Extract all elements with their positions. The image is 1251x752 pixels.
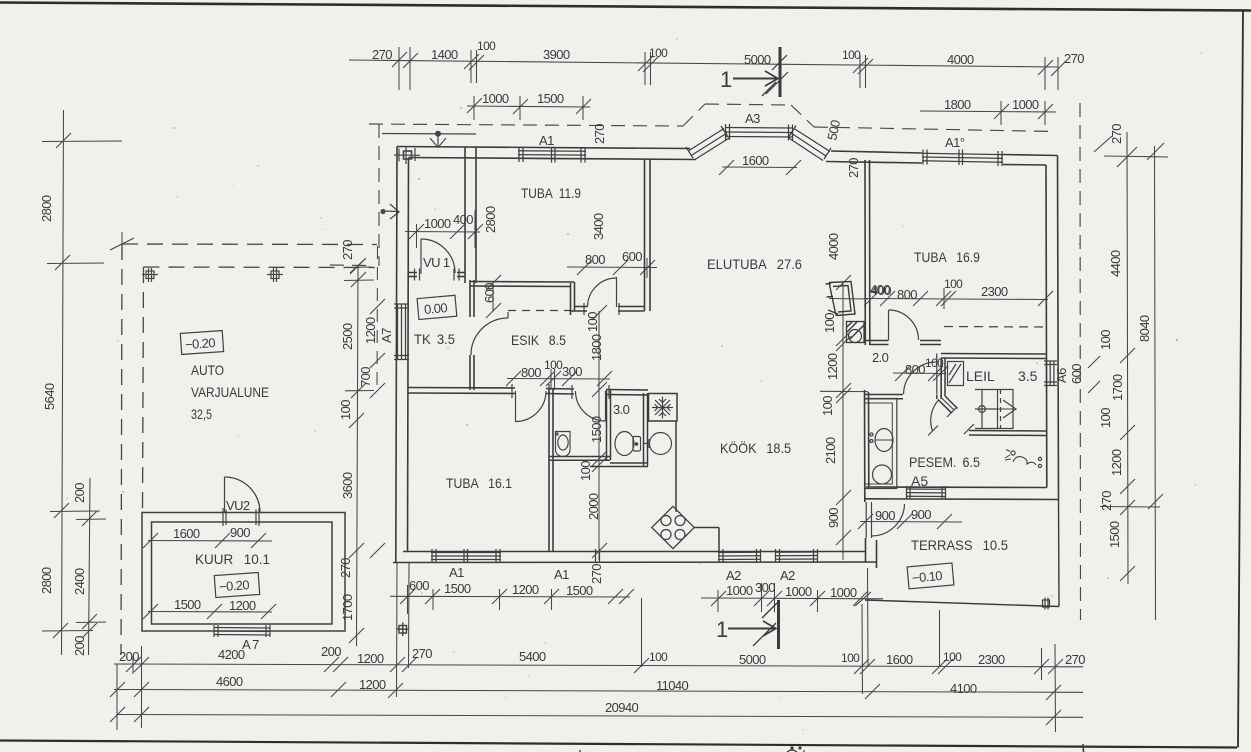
svg-text:TK 3.5: TK 3.5 xyxy=(414,331,455,347)
overhang top left xyxy=(369,124,683,126)
wall piece between doors xyxy=(546,388,574,391)
elevation box 0.00 xyxy=(417,295,457,319)
section line top xyxy=(779,47,782,97)
svg-text:270: 270 xyxy=(412,646,432,661)
svg-text:800: 800 xyxy=(521,365,541,380)
dim line 800/600 tuba119 xyxy=(567,266,657,269)
svg-text:1600: 1600 xyxy=(742,153,769,168)
elevation box -0.10 terrace xyxy=(907,563,954,589)
svg-text:8040: 8040 xyxy=(1137,315,1152,342)
overhang right vertical xyxy=(1079,103,1082,620)
svg-text:1500: 1500 xyxy=(566,583,593,598)
vu1 right wall west line xyxy=(464,147,466,283)
svg-text:200: 200 xyxy=(119,649,139,664)
svg-text:−0.20: −0.20 xyxy=(219,577,250,594)
bath sink circle xyxy=(650,433,672,455)
svg-text:32,5: 32,5 xyxy=(191,406,212,422)
carport top inner dashed xyxy=(144,266,376,269)
ticks outer xyxy=(1147,143,1164,160)
tuba119 door jambs xyxy=(583,303,585,315)
fridge snowflake xyxy=(652,397,673,419)
svg-text:300: 300 xyxy=(562,364,582,379)
dim chain x843 kitchen xyxy=(842,283,844,560)
svg-text:4600: 4600 xyxy=(216,674,243,689)
svg-text:270: 270 xyxy=(1109,124,1124,144)
svg-text:1500: 1500 xyxy=(444,581,471,596)
hline at 157 xyxy=(1104,156,1168,157)
svg-text:PESEM. 6.5: PESEM. 6.5 xyxy=(909,454,980,470)
svg-text:600: 600 xyxy=(1069,364,1084,384)
svg-text:270: 270 xyxy=(1064,51,1084,66)
svg-text:600: 600 xyxy=(409,578,429,593)
svg-text:800: 800 xyxy=(585,252,605,267)
vu1 door arc xyxy=(421,239,455,273)
window A2 west xyxy=(718,551,761,553)
svg-text:1500: 1500 xyxy=(174,597,201,612)
svg-text:270: 270 xyxy=(372,47,392,62)
leil left wall mid xyxy=(936,395,938,400)
svg-text:A3: A3 xyxy=(745,111,760,126)
svg-text:0.00: 0.00 xyxy=(423,300,447,317)
svg-text:−0.10: −0.10 xyxy=(911,568,942,586)
svg-text:3600: 3600 xyxy=(340,472,355,499)
svg-text:1: 1 xyxy=(720,67,732,92)
svg-text:100: 100 xyxy=(649,46,668,60)
svg-text:1800: 1800 xyxy=(944,97,971,112)
svg-text:300: 300 xyxy=(755,580,775,595)
svg-text:A6: A6 xyxy=(1054,368,1069,383)
leil bottom wall xyxy=(969,430,1046,433)
svg-text:2000: 2000 xyxy=(586,493,601,520)
svg-text:20940: 20940 xyxy=(605,700,639,715)
leil door jambs xyxy=(947,407,957,417)
svg-text:1000: 1000 xyxy=(726,583,753,598)
svg-text:270: 270 xyxy=(340,240,355,260)
svg-text:1200: 1200 xyxy=(512,582,539,597)
svg-text:LEIL: LEIL xyxy=(966,368,995,384)
leil door leaf xyxy=(938,400,952,413)
svg-text:1600: 1600 xyxy=(886,652,913,667)
svg-text:100: 100 xyxy=(841,651,860,665)
esik top wall xyxy=(470,281,574,284)
bath right wall xyxy=(643,393,645,466)
tuba119 door leaf xyxy=(616,277,618,307)
tuba169 door leaf+arc xyxy=(888,310,890,340)
left wall inner xyxy=(408,158,409,553)
bay front window xyxy=(725,127,793,130)
SE corner wall vertical xyxy=(865,538,867,562)
overhang bay right slant xyxy=(791,105,814,127)
top wall left outer xyxy=(397,147,690,149)
dim line 900/900 terrace xyxy=(860,521,962,524)
svg-text:900: 900 xyxy=(230,525,250,540)
svg-text:800: 800 xyxy=(905,362,925,377)
svg-text:AUTO: AUTO xyxy=(191,362,224,378)
wc right wall xyxy=(606,390,608,460)
svg-text:VARJUALUNE: VARJUALUNE xyxy=(191,384,269,400)
porch dashed left xyxy=(330,264,366,267)
canopy line xyxy=(382,133,476,136)
wc door leaf+arc xyxy=(605,391,607,421)
row2 right line 1800/1000 xyxy=(920,111,1056,112)
shower squiggle xyxy=(1013,457,1036,465)
terrace right edge xyxy=(1058,500,1061,607)
svg-text:1000: 1000 xyxy=(424,216,451,231)
svg-text:900: 900 xyxy=(911,507,931,522)
svg-text:1000: 1000 xyxy=(1012,97,1039,112)
tuba119 door east wall piece xyxy=(618,306,645,308)
svg-text:A1: A1 xyxy=(539,133,554,148)
main bottom wall outer xyxy=(393,561,877,564)
svg-text:KUUR 10.1: KUUR 10.1 xyxy=(195,551,270,567)
dim line 400/800/100/2300 xyxy=(865,299,1048,300)
bench arrow xyxy=(1003,400,1016,418)
east wall outer xyxy=(1058,156,1059,500)
A6 mini ticks xyxy=(1088,356,1100,368)
kuur door VU2 arc xyxy=(225,477,261,512)
left chain line 2800/5640/2800 xyxy=(62,110,64,655)
wc top wall east piece xyxy=(606,389,648,392)
pesem door leaf xyxy=(936,361,938,394)
carport top outer dashed xyxy=(122,243,377,246)
terrace left tick xyxy=(855,592,871,606)
svg-text:A7: A7 xyxy=(379,328,394,343)
esik bottom wall west segment xyxy=(408,387,516,390)
window A1 tuba161 xyxy=(431,552,501,554)
rowB small verticals xyxy=(132,656,134,674)
boiler box xyxy=(847,322,865,343)
svg-text:100: 100 xyxy=(1098,330,1113,350)
svg-text:270: 270 xyxy=(589,564,604,584)
svg-text:1400: 1400 xyxy=(431,47,458,62)
svg-text:ELUTUBA 27.6: ELUTUBA 27.6 xyxy=(707,256,802,272)
bay dim 1600 xyxy=(719,160,801,175)
fridge box xyxy=(649,394,678,422)
svg-text:11040: 11040 xyxy=(656,678,689,693)
tick y263 xyxy=(47,262,104,265)
svg-text:2300: 2300 xyxy=(981,284,1008,299)
vu1 dim line 1000/400 xyxy=(405,210,483,248)
svg-text:2800: 2800 xyxy=(39,567,54,594)
bottom connector verticals xyxy=(116,664,118,730)
terrace corner hatch xyxy=(1043,598,1050,610)
overhang left vertical xyxy=(378,124,380,266)
svg-text:A5: A5 xyxy=(911,473,928,489)
page right border xyxy=(1238,10,1243,748)
svg-text:VU 1: VU 1 xyxy=(423,255,450,270)
ELUTUBA/TUBA16.9 wall east line xyxy=(869,160,871,345)
tuba161 door leaf+arc xyxy=(515,391,517,422)
svg-text:100: 100 xyxy=(820,396,835,416)
svg-text:−0.20: −0.20 xyxy=(185,335,216,352)
svg-text:A 7: A 7 xyxy=(242,637,259,652)
svg-text:270: 270 xyxy=(592,124,607,144)
chain x493 600 xyxy=(492,283,494,311)
terrace door arc xyxy=(872,504,905,536)
svg-text:TUBA 16.1: TUBA 16.1 xyxy=(446,475,512,491)
wc sink xyxy=(556,432,571,457)
svg-text:1600: 1600 xyxy=(173,526,200,541)
tuba169 bottom wall west piece xyxy=(865,340,889,342)
window A6 xyxy=(1046,361,1048,387)
svg-text:A1°: A1° xyxy=(945,135,965,150)
right wing bottom inner xyxy=(866,486,1047,489)
entry arrow on dashdot xyxy=(380,209,385,214)
top wall right of A1deg inner xyxy=(1003,164,1046,167)
svg-text:100: 100 xyxy=(578,461,593,481)
right chain line outer xyxy=(1155,146,1156,620)
esik wardrobe dashed xyxy=(508,310,570,312)
tuba169 bottom wall east piece xyxy=(920,340,941,342)
svg-text:TERRASS 10.5: TERRASS 10.5 xyxy=(911,537,1008,553)
wc bottom wall xyxy=(549,456,610,458)
svg-text:2800: 2800 xyxy=(39,195,54,222)
svg-text:1200: 1200 xyxy=(229,598,256,613)
svg-text:2100: 2100 xyxy=(823,437,838,464)
svg-text:4000: 4000 xyxy=(826,233,841,260)
svg-text:3900: 3900 xyxy=(543,47,570,62)
canopy entry arrow xyxy=(437,136,439,147)
svg-text:1500: 1500 xyxy=(1107,521,1122,548)
page bottom border xyxy=(0,741,1237,748)
svg-text:5640: 5640 xyxy=(42,383,57,410)
stove diamond xyxy=(652,506,694,548)
tuba119/elutuba wall east xyxy=(649,160,651,312)
svg-text:ESIK 8.5: ESIK 8.5 xyxy=(511,332,566,348)
section arrow top xyxy=(733,78,776,80)
svg-text:A1: A1 xyxy=(449,565,464,580)
tk/esik wall upper xyxy=(469,280,471,317)
tuba161 right wall (wc left) xyxy=(548,389,550,552)
elevation box -0.20 carport xyxy=(180,331,223,355)
window A2 east xyxy=(775,551,818,553)
svg-text:600: 600 xyxy=(622,249,642,264)
kuur inner rect xyxy=(152,522,333,624)
svg-text:100: 100 xyxy=(477,39,496,53)
dim line 800/100 pesem door xyxy=(893,372,946,375)
svg-text:1200: 1200 xyxy=(1109,449,1124,476)
kitchen/PESEM shared wall west line xyxy=(864,390,866,502)
svg-text:5000: 5000 xyxy=(739,652,766,667)
terrace bottom edge xyxy=(865,600,1059,607)
tick y141 xyxy=(42,140,122,143)
svg-text:KÖÖK 18.5: KÖÖK 18.5 xyxy=(720,439,791,456)
carport left inner dashed xyxy=(143,267,144,512)
svg-text:1: 1 xyxy=(716,617,728,642)
svg-text:200: 200 xyxy=(72,636,87,656)
svg-text:100: 100 xyxy=(943,650,962,664)
svg-text:1700: 1700 xyxy=(340,594,355,621)
top wall left inner xyxy=(409,158,697,160)
title block stub below border xyxy=(1082,744,1085,752)
svg-text:100: 100 xyxy=(1098,408,1113,428)
svg-text:1000: 1000 xyxy=(482,91,509,106)
svg-text:1000: 1000 xyxy=(830,585,857,600)
row2 left line 1000/1500 xyxy=(467,106,590,107)
svg-text:A2: A2 xyxy=(780,568,795,583)
fireplace xyxy=(829,282,855,316)
svg-text:100: 100 xyxy=(822,313,837,333)
svg-text:400: 400 xyxy=(453,212,473,227)
window A5 xyxy=(906,488,946,490)
svg-text:200: 200 xyxy=(72,483,87,503)
svg-text:TUBA 16.9: TUBA 16.9 xyxy=(914,249,980,265)
svg-text:1500: 1500 xyxy=(537,91,564,106)
bottom wall jamb ticks xyxy=(595,549,597,563)
ELUTUBA/TUBA16.9 wall west line xyxy=(864,160,866,345)
leil left wall xyxy=(936,354,938,362)
fireplace front ticks xyxy=(826,283,832,286)
corner post hatch bottom left xyxy=(397,623,409,637)
esik ne jog wall xyxy=(570,283,572,315)
svg-text:A1: A1 xyxy=(554,567,569,582)
kuur window A7 bottom xyxy=(214,627,270,630)
svg-text:5000: 5000 xyxy=(744,52,771,67)
bath toilet xyxy=(615,432,634,456)
svg-text:100: 100 xyxy=(585,312,600,332)
svg-text:100: 100 xyxy=(338,400,353,420)
vu1 door leaf xyxy=(420,239,422,274)
svg-text:270: 270 xyxy=(1065,652,1085,667)
svg-text:700: 700 xyxy=(358,367,373,387)
kuur outer rect xyxy=(142,513,345,632)
tick y631 xyxy=(42,630,93,633)
svg-text:VU2: VU2 xyxy=(226,498,250,513)
tuba119 door arc xyxy=(588,278,617,307)
right chain line inner xyxy=(1127,132,1128,584)
svg-text:400: 400 xyxy=(871,283,891,298)
svg-text:100: 100 xyxy=(842,48,861,62)
sauna stove xyxy=(948,362,964,386)
leil door arc xyxy=(931,400,939,431)
carport left outer dashed xyxy=(121,244,122,655)
leil west wall xyxy=(940,358,942,399)
tick y631b xyxy=(82,623,97,638)
svg-text:2.0: 2.0 xyxy=(872,350,889,365)
svg-text:100: 100 xyxy=(544,358,563,372)
svg-text:1700: 1700 xyxy=(1110,374,1125,401)
svg-text:1800: 1800 xyxy=(589,334,604,361)
vu1 bottom wall xyxy=(408,272,417,274)
left chain line 200/2400/200 xyxy=(89,478,91,655)
bay left slant window xyxy=(689,129,724,151)
vu1 right wall east line xyxy=(475,148,477,284)
svg-text:1200: 1200 xyxy=(363,317,378,344)
row1 ticks xyxy=(392,47,1066,90)
svg-text:1200: 1200 xyxy=(357,651,384,666)
svg-text:900: 900 xyxy=(875,508,895,523)
svg-text:200: 200 xyxy=(321,644,341,659)
bench rungs xyxy=(975,389,1013,391)
svg-text:270: 270 xyxy=(338,558,353,578)
svg-text:600: 600 xyxy=(482,283,497,303)
svg-text:100: 100 xyxy=(944,277,963,291)
sauna bench rails xyxy=(981,389,983,429)
svg-text:100: 100 xyxy=(649,650,668,664)
kuur dim line 1600/900 xyxy=(148,540,272,543)
svg-text:270: 270 xyxy=(1099,491,1114,511)
leil chamfer wall xyxy=(938,400,952,414)
corner post hatch xyxy=(404,151,412,159)
svg-text:1200: 1200 xyxy=(359,677,386,692)
svg-text:4000: 4000 xyxy=(947,52,974,67)
tick y511 xyxy=(50,510,100,513)
section line bottom xyxy=(777,600,780,649)
section arrow bottom xyxy=(728,628,774,630)
svg-text:1200: 1200 xyxy=(825,353,840,380)
ticks inner xyxy=(1117,147,1137,167)
main bottom wall inner xyxy=(403,551,866,553)
svg-text:3.5: 3.5 xyxy=(1018,368,1038,384)
top wall right of A1deg outer xyxy=(1003,155,1058,156)
svg-text:800: 800 xyxy=(897,287,917,302)
svg-text:3400: 3400 xyxy=(591,213,606,240)
tuba119/elutuba wall west xyxy=(644,160,646,312)
east wall inner xyxy=(1045,165,1048,488)
bay right slant window xyxy=(794,129,830,152)
counter edge vertical xyxy=(675,421,677,512)
washer xyxy=(873,465,892,484)
window A1 tuba11.9 xyxy=(518,150,586,153)
canopy circle xyxy=(435,131,441,137)
title block text hint dots xyxy=(790,746,801,749)
svg-text:1000: 1000 xyxy=(785,584,812,599)
window A1deg right wing xyxy=(922,153,1003,154)
svg-text:270: 270 xyxy=(846,158,861,178)
bath bottom wall xyxy=(610,462,648,464)
counter corner to wall xyxy=(694,527,719,529)
tick y519 xyxy=(76,518,106,521)
svg-text:900: 900 xyxy=(826,508,841,528)
terrace door leaf xyxy=(865,502,867,538)
svg-text:5400: 5400 xyxy=(519,649,546,664)
svg-text:1500: 1500 xyxy=(589,416,604,443)
overhang top right xyxy=(814,127,1054,132)
svg-text:2800: 2800 xyxy=(483,206,498,233)
svg-text:4400: 4400 xyxy=(1108,250,1123,277)
right wing bottom outer xyxy=(864,498,1059,501)
pesem door arc xyxy=(904,362,937,394)
carport post 1 xyxy=(142,268,158,282)
kuur door VU2 opening jambs xyxy=(222,508,224,526)
chain dashed x377 xyxy=(376,246,379,392)
dim line 800/100/300 esik xyxy=(507,378,610,381)
svg-text:4100: 4100 xyxy=(950,681,977,696)
chain ticks xyxy=(344,266,372,269)
kitchen/PESEM shared wall east line xyxy=(868,392,870,487)
tk door arc xyxy=(471,318,508,355)
tick overhang right corner xyxy=(1094,136,1112,152)
svg-text:2400: 2400 xyxy=(72,568,87,595)
left wall outer xyxy=(396,147,397,564)
tick y622 xyxy=(76,621,106,624)
top wall right outer xyxy=(831,151,922,153)
vu1 door jambs xyxy=(414,269,416,281)
overhang bay top xyxy=(705,104,791,105)
vanity sink xyxy=(875,429,893,452)
svg-text:4200: 4200 xyxy=(218,647,245,662)
esik ne wall piece xyxy=(575,306,588,308)
elevation box -0.20 kuur xyxy=(214,572,259,597)
svg-text:2500: 2500 xyxy=(340,323,355,350)
svg-text:2300: 2300 xyxy=(978,652,1005,667)
rowB ticks xyxy=(126,657,141,672)
overhang bay left slant xyxy=(683,104,705,126)
carport post 2 xyxy=(267,268,283,282)
bench circle xyxy=(979,406,986,413)
svg-text:3.0: 3.0 xyxy=(613,402,630,417)
closet bottom wall / pesem top xyxy=(865,394,904,396)
